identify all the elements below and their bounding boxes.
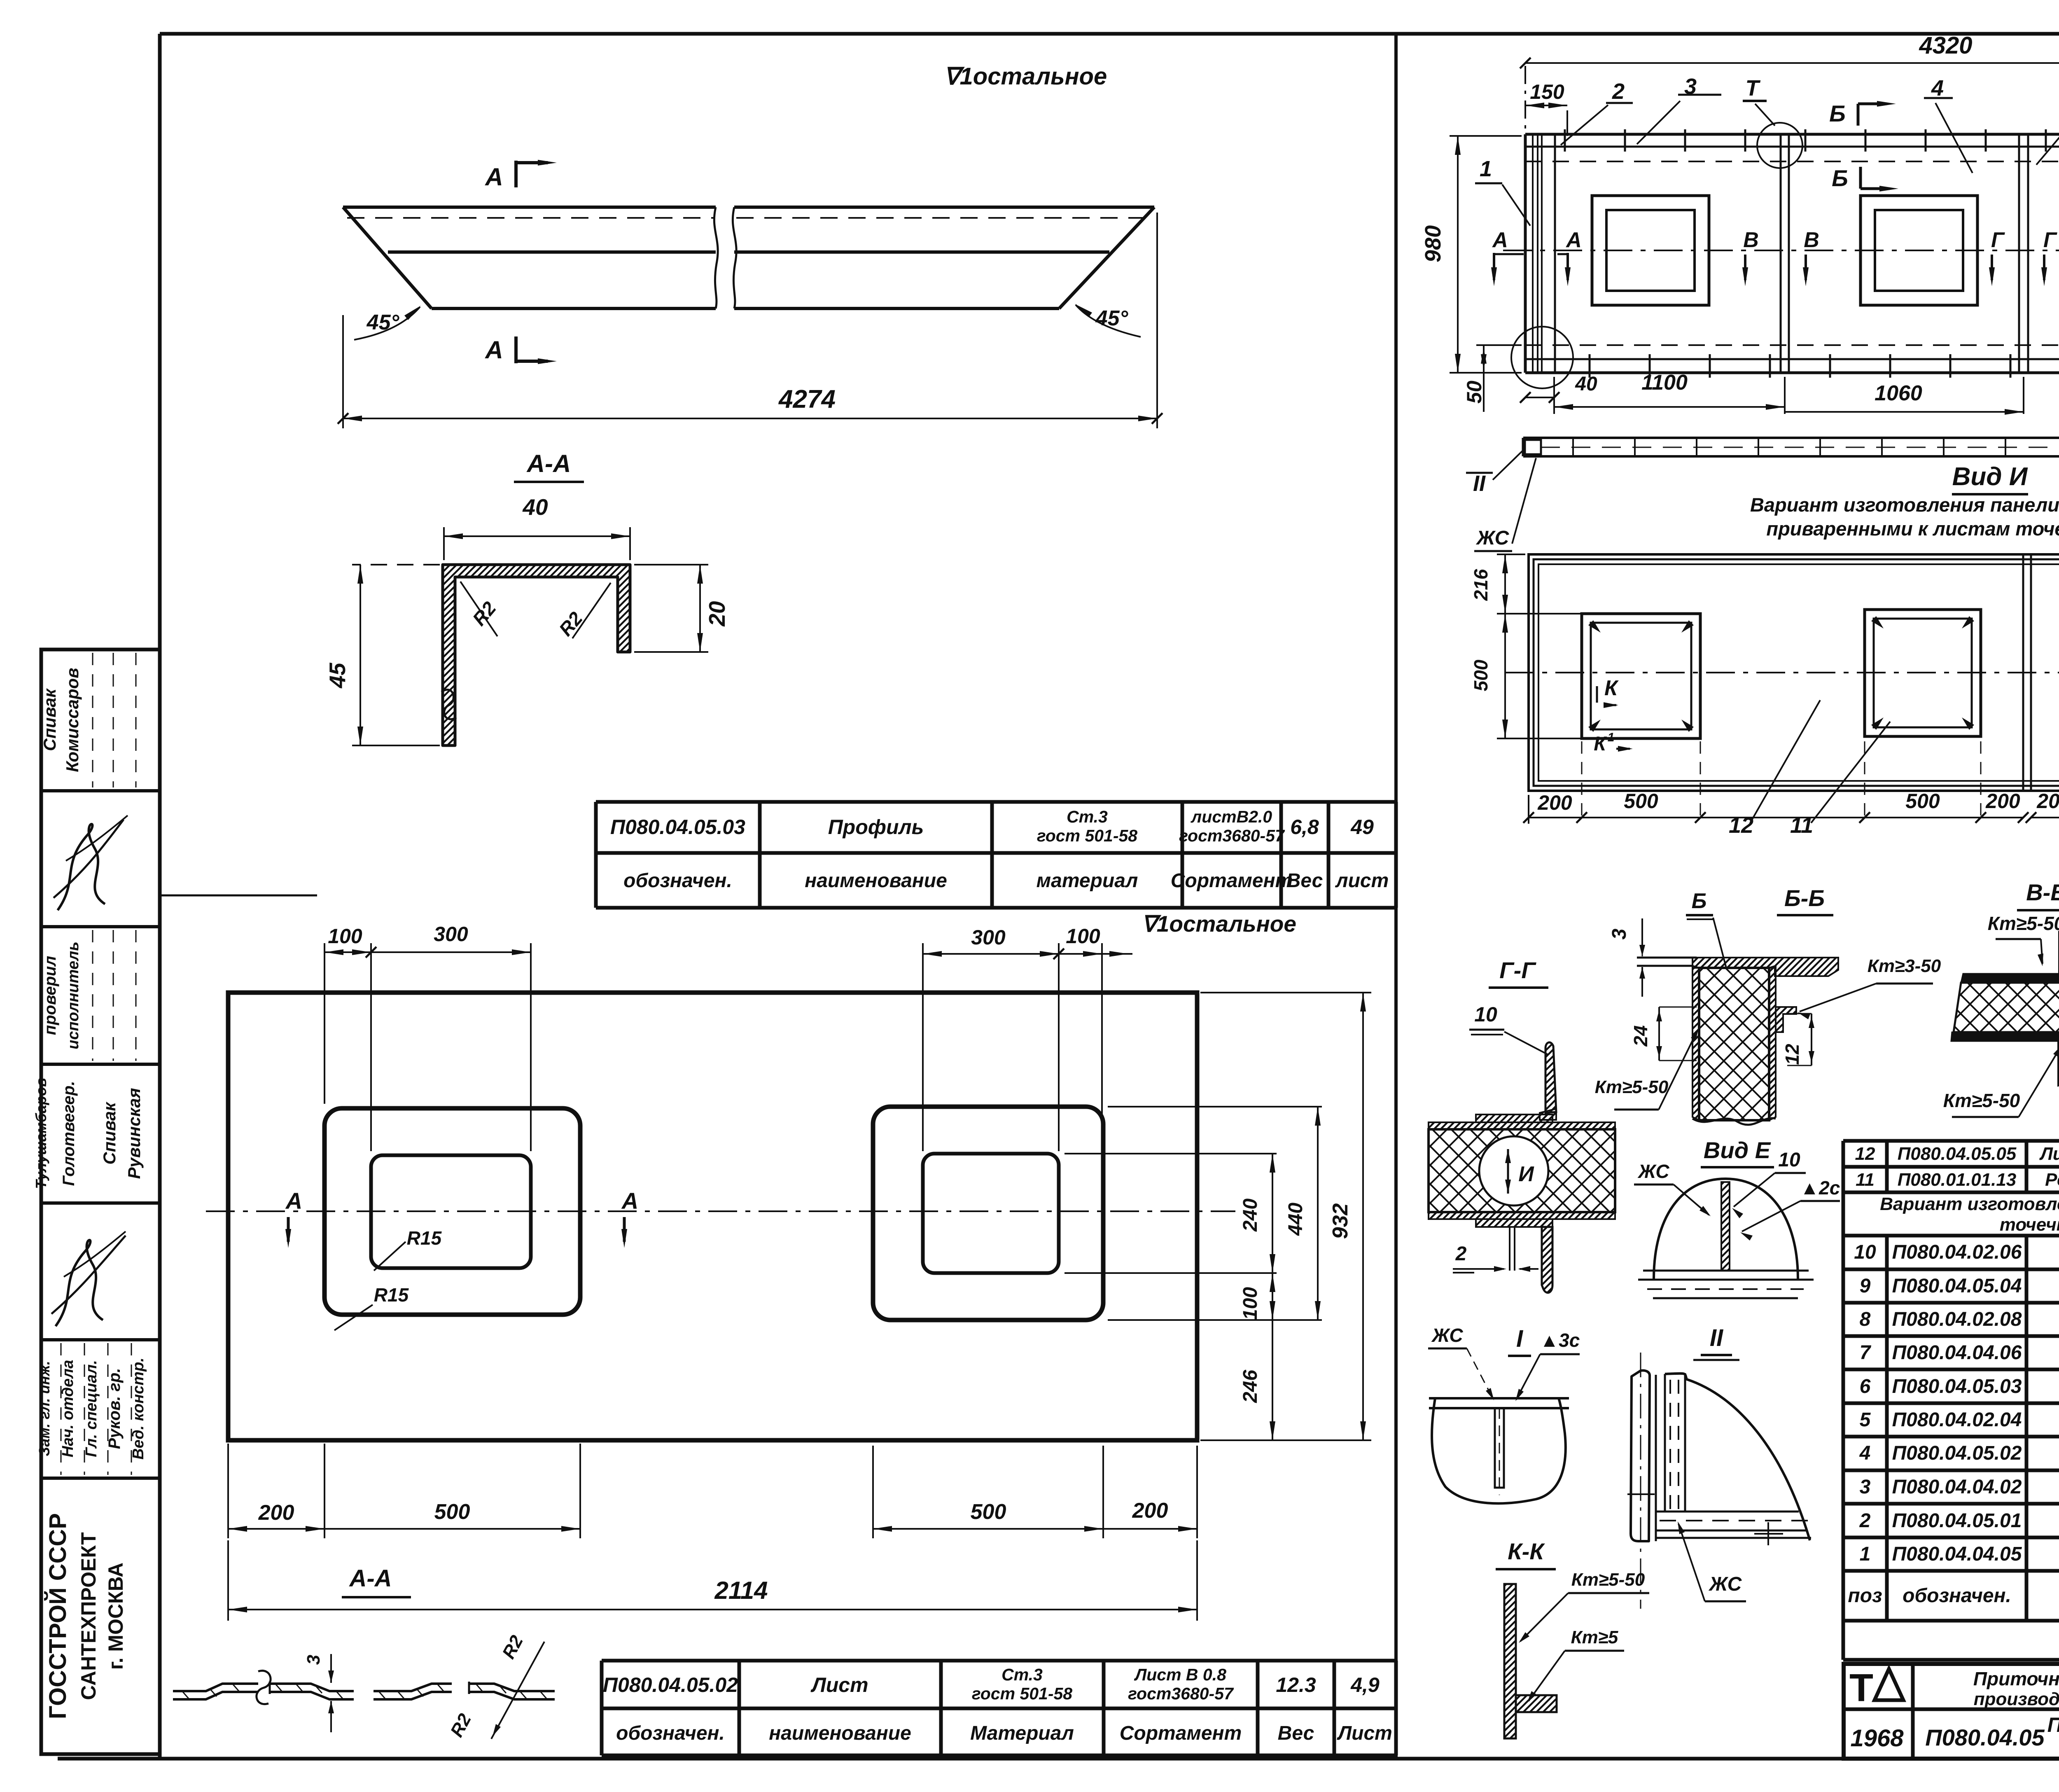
svg-text:3: 3 xyxy=(303,1655,324,1665)
svg-text:материал: материал xyxy=(1037,870,1138,892)
svg-text:обозначен.: обозначен. xyxy=(1903,1585,2011,1607)
svg-text:3: 3 xyxy=(1608,928,1630,939)
svg-text:Лист В 0.8: Лист В 0.8 xyxy=(1134,1665,1226,1684)
svg-text:4274: 4274 xyxy=(778,385,836,414)
svg-text:100: 100 xyxy=(1240,1287,1261,1320)
svg-text:500: 500 xyxy=(1624,790,1658,813)
svg-text:проверил: проверил xyxy=(41,956,59,1035)
svg-text:Кт≥5-50: Кт≥5-50 xyxy=(1943,1090,2020,1111)
svg-text:Вид Е: Вид Е xyxy=(1704,1137,1771,1163)
svg-text:Б: Б xyxy=(1692,889,1707,913)
svg-text:Ребро жесткости: Ребро жесткости xyxy=(2045,1170,2059,1190)
svg-text:100: 100 xyxy=(328,925,362,948)
svg-text:11: 11 xyxy=(1856,1170,1875,1190)
svg-text:наименование: наименование xyxy=(769,1722,911,1744)
svg-text:Кт≥5-50: Кт≥5-50 xyxy=(1988,913,2059,934)
svg-text:А-А: А-А xyxy=(348,1565,392,1592)
svg-text:точечной сваркой: точечной сваркой xyxy=(2000,1215,2059,1235)
svg-text:2: 2 xyxy=(1859,1510,1871,1532)
svg-text:листВ2.0: листВ2.0 xyxy=(1191,807,1272,826)
svg-text:500: 500 xyxy=(434,1500,470,1524)
svg-text:Зам. гл. инж.: Зам. гл. инж. xyxy=(36,1361,53,1456)
svg-text:40: 40 xyxy=(522,494,548,520)
svg-text:ЖС: ЖС xyxy=(1475,527,1510,549)
svg-text:П080.04.05: П080.04.05 xyxy=(1925,1724,2045,1750)
svg-text:Лист: Лист xyxy=(810,1673,868,1696)
svg-text:200: 200 xyxy=(1985,790,2020,813)
svg-text:П080.04.02.04: П080.04.02.04 xyxy=(1892,1409,2022,1431)
svg-text:500: 500 xyxy=(1470,659,1492,691)
svg-text:А: А xyxy=(1492,228,1508,252)
svg-text:20: 20 xyxy=(704,601,730,627)
svg-text:12: 12 xyxy=(1781,1044,1803,1065)
svg-text:П080.04.05.04: П080.04.05.04 xyxy=(1892,1275,2022,1297)
svg-text:А: А xyxy=(484,336,503,364)
svg-text:гост3680-57: гост3680-57 xyxy=(1179,826,1285,845)
svg-text:45: 45 xyxy=(324,662,350,689)
svg-text:Вид И: Вид И xyxy=(1952,463,2028,491)
svg-text:П080.01.01.13: П080.01.01.13 xyxy=(1898,1170,2017,1190)
svg-text:П080.04.04.06: П080.04.04.06 xyxy=(1892,1342,2022,1364)
svg-text:Нач. отдела: Нач. отдела xyxy=(59,1360,77,1458)
svg-text:А: А xyxy=(621,1188,638,1214)
svg-text:г. МОСКВА: г. МОСКВА xyxy=(104,1563,127,1670)
svg-text:300: 300 xyxy=(971,926,1006,949)
svg-text:1: 1 xyxy=(1860,1543,1871,1565)
svg-text:В: В xyxy=(1804,228,1819,252)
svg-text:∇1остальное: ∇1остальное xyxy=(1142,911,1296,937)
svg-text:гост3680-57: гост3680-57 xyxy=(1128,1684,1234,1703)
svg-text:поз: поз xyxy=(1848,1585,1882,1607)
svg-text:обозначен.: обозначен. xyxy=(616,1722,725,1744)
svg-text:Т: Т xyxy=(1849,1666,1873,1710)
svg-text:24: 24 xyxy=(1630,1025,1651,1047)
svg-text:Кт≥5: Кт≥5 xyxy=(1571,1627,1618,1647)
svg-text:II: II xyxy=(1473,471,1486,496)
svg-text:П080.04.05.02: П080.04.05.02 xyxy=(603,1673,738,1696)
svg-text:4: 4 xyxy=(1931,76,1944,100)
svg-text:приваренными к листам точечной: приваренными к листам точечной сваркой xyxy=(1766,518,2059,540)
svg-text:ЖС: ЖС xyxy=(1637,1161,1669,1182)
svg-text:1: 1 xyxy=(1480,157,1492,181)
svg-text:В-В: В-В xyxy=(2026,879,2059,905)
svg-text:Б: Б xyxy=(1829,100,1846,126)
svg-text:11: 11 xyxy=(1790,813,1813,838)
svg-text:Вес: Вес xyxy=(1278,1722,1314,1744)
svg-text:И: И xyxy=(1518,1162,1534,1186)
svg-text:1100: 1100 xyxy=(1641,371,1688,395)
svg-text:Рувинская: Рувинская xyxy=(124,1088,144,1179)
svg-text:А-А: А-А xyxy=(526,450,571,477)
svg-text:9: 9 xyxy=(1860,1275,1871,1297)
svg-text:4,9: 4,9 xyxy=(1350,1673,1380,1696)
svg-text:П080.04.04.05: П080.04.04.05 xyxy=(1892,1543,2022,1565)
svg-text:10: 10 xyxy=(1474,1003,1497,1026)
svg-text:Вед. констр.: Вед. констр. xyxy=(130,1357,147,1460)
svg-text:ГОССТРОЙ СССР: ГОССТРОЙ СССР xyxy=(44,1513,71,1719)
svg-text:Ст.3: Ст.3 xyxy=(1067,807,1108,826)
svg-text:Вес: Вес xyxy=(1286,870,1323,892)
svg-text:обозначен.: обозначен. xyxy=(623,870,732,892)
svg-text:40: 40 xyxy=(1575,373,1597,395)
svg-text:В: В xyxy=(1743,228,1759,252)
svg-text:Приточная вентиляционная кам: Приточная вентиляционная камера типа ПК1… xyxy=(1973,1668,2059,1689)
svg-text:II: II xyxy=(1710,1325,1724,1351)
svg-text:П080.04.02.06: П080.04.02.06 xyxy=(1892,1241,2022,1263)
svg-text:Спивак: Спивак xyxy=(40,688,59,751)
svg-text:200: 200 xyxy=(258,1501,294,1525)
svg-text:Материал: Материал xyxy=(970,1722,1074,1744)
svg-text:Б: Б xyxy=(1832,165,1848,191)
svg-text:12.3: 12.3 xyxy=(1276,1673,1316,1696)
svg-text:500: 500 xyxy=(1905,790,1940,813)
svg-text:П080.04.05.01: П080.04.05.01 xyxy=(1892,1510,2022,1532)
svg-text:Панель перекрытия: Панель перекрытия xyxy=(2047,1713,2059,1736)
svg-text:R15: R15 xyxy=(374,1284,409,1306)
svg-text:Б-Б: Б-Б xyxy=(1784,885,1825,911)
svg-text:49: 49 xyxy=(1350,815,1374,839)
svg-text:246: 246 xyxy=(1240,1370,1261,1403)
svg-text:Сортамент: Сортамент xyxy=(1171,870,1293,892)
svg-text:200: 200 xyxy=(1537,791,1572,814)
svg-text:Ст.3: Ст.3 xyxy=(1001,1665,1043,1684)
svg-text:Г: Г xyxy=(1991,228,2005,252)
svg-text:12: 12 xyxy=(1729,813,1753,838)
svg-text:лист: лист xyxy=(1335,870,1389,892)
svg-text:▲2с: ▲2с xyxy=(1800,1177,1840,1199)
svg-text:П080.04.05.03: П080.04.05.03 xyxy=(610,815,745,839)
svg-text:2: 2 xyxy=(1455,1243,1467,1265)
svg-text:П080.04.02.08: П080.04.02.08 xyxy=(1892,1308,2022,1330)
svg-text:Кт≥5-50: Кт≥5-50 xyxy=(1595,1077,1669,1097)
svg-text:932: 932 xyxy=(1328,1203,1352,1239)
svg-text:6: 6 xyxy=(1860,1376,1871,1397)
svg-text:Голотвегер.: Голотвегер. xyxy=(60,1081,78,1186)
svg-text:1968: 1968 xyxy=(1850,1725,1904,1752)
svg-text:ЛистВ0.8х932х2114: ЛистВ0.8х932х2114 xyxy=(2039,1144,2059,1164)
svg-text:2: 2 xyxy=(1612,79,1625,104)
svg-text:500: 500 xyxy=(971,1500,1006,1524)
svg-text:Профиль: Профиль xyxy=(828,815,924,839)
svg-text:Кт≥3-50: Кт≥3-50 xyxy=(1868,956,1941,976)
svg-text:150: 150 xyxy=(1530,80,1564,103)
svg-text:Кт≥5-50: Кт≥5-50 xyxy=(1571,1570,1645,1590)
svg-text:П080.04.05.05: П080.04.05.05 xyxy=(1898,1144,2017,1164)
svg-text:Г-Г: Г-Г xyxy=(1499,957,1536,983)
svg-text:∇1остальное: ∇1остальное xyxy=(944,63,1107,90)
svg-text:производительностью от 100: производительностью от 100 до 150 тыс. м… xyxy=(1974,1689,2059,1709)
svg-text:наименование: наименование xyxy=(805,870,947,892)
svg-text:300: 300 xyxy=(434,923,468,946)
svg-text:I: I xyxy=(1516,1325,1524,1352)
svg-text:Вариант изготовления панели с: Вариант изготовления панели с жесткостям… xyxy=(1750,494,2059,516)
svg-text:200: 200 xyxy=(2036,790,2059,813)
svg-text:П080.04.04.02: П080.04.04.02 xyxy=(1892,1476,2022,1498)
svg-text:50: 50 xyxy=(1463,381,1486,404)
svg-text:гост 501-58: гост 501-58 xyxy=(972,1684,1072,1703)
svg-text:45°: 45° xyxy=(1095,306,1129,330)
svg-text:Сортамент: Сортамент xyxy=(1120,1722,1242,1744)
svg-text:А: А xyxy=(1565,228,1582,252)
svg-text:R15: R15 xyxy=(407,1227,442,1249)
svg-text:1060: 1060 xyxy=(1875,381,1922,405)
svg-text:САНТЕХПРОЕКТ: САНТЕХПРОЕКТ xyxy=(77,1532,100,1700)
svg-text:Тулушамбаров: Тулушамбаров xyxy=(33,1078,49,1189)
svg-text:ЖС: ЖС xyxy=(1431,1325,1463,1346)
svg-text:5: 5 xyxy=(1860,1409,1871,1431)
svg-text:П080.04.05.02: П080.04.05.02 xyxy=(1892,1442,2022,1464)
svg-text:Комиссаров: Комиссаров xyxy=(63,668,82,772)
svg-text:12: 12 xyxy=(1855,1144,1875,1164)
svg-text:Спивак: Спивак xyxy=(100,1102,119,1165)
svg-text:7: 7 xyxy=(1860,1342,1872,1364)
svg-text:К-К: К-К xyxy=(1508,1538,1545,1564)
svg-text:240: 240 xyxy=(1240,1199,1261,1232)
svg-text:ЖС: ЖС xyxy=(1708,1573,1742,1595)
svg-text:440: 440 xyxy=(1285,1203,1307,1236)
svg-text:исполнитель: исполнитель xyxy=(65,942,82,1049)
svg-text:10: 10 xyxy=(1854,1241,1876,1263)
svg-text:8: 8 xyxy=(1860,1308,1871,1330)
svg-text:1: 1 xyxy=(1608,731,1615,744)
svg-text:гост 501-58: гост 501-58 xyxy=(1037,826,1137,845)
svg-text:980: 980 xyxy=(1421,225,1445,262)
svg-text:К: К xyxy=(1604,676,1619,700)
svg-text:А: А xyxy=(484,163,503,191)
svg-text:4320: 4320 xyxy=(1919,32,1972,59)
svg-text:Гл. специал.: Гл. специал. xyxy=(83,1360,100,1457)
svg-text:Вариант изготовления листов: Вариант изготовления листов с жесткостям… xyxy=(1880,1194,2059,1214)
svg-text:200: 200 xyxy=(1132,1499,1168,1523)
svg-text:▲3с: ▲3с xyxy=(1540,1329,1580,1351)
svg-text:4: 4 xyxy=(1859,1442,1871,1464)
svg-text:10: 10 xyxy=(1778,1149,1800,1171)
svg-text:3: 3 xyxy=(1860,1476,1871,1498)
svg-text:А: А xyxy=(285,1188,302,1214)
svg-text:Г: Г xyxy=(2043,228,2057,252)
svg-text:Т: Т xyxy=(1746,76,1761,100)
svg-text:П080.04.05.03: П080.04.05.03 xyxy=(1892,1376,2022,1397)
svg-text:216: 216 xyxy=(1470,569,1492,601)
svg-text:6,8: 6,8 xyxy=(1290,815,1319,839)
svg-text:2114: 2114 xyxy=(714,1577,768,1604)
svg-text:45°: 45° xyxy=(367,311,400,334)
svg-text:100: 100 xyxy=(1066,925,1100,948)
svg-text:К: К xyxy=(1594,733,1607,755)
svg-text:Лист: Лист xyxy=(1337,1722,1392,1744)
